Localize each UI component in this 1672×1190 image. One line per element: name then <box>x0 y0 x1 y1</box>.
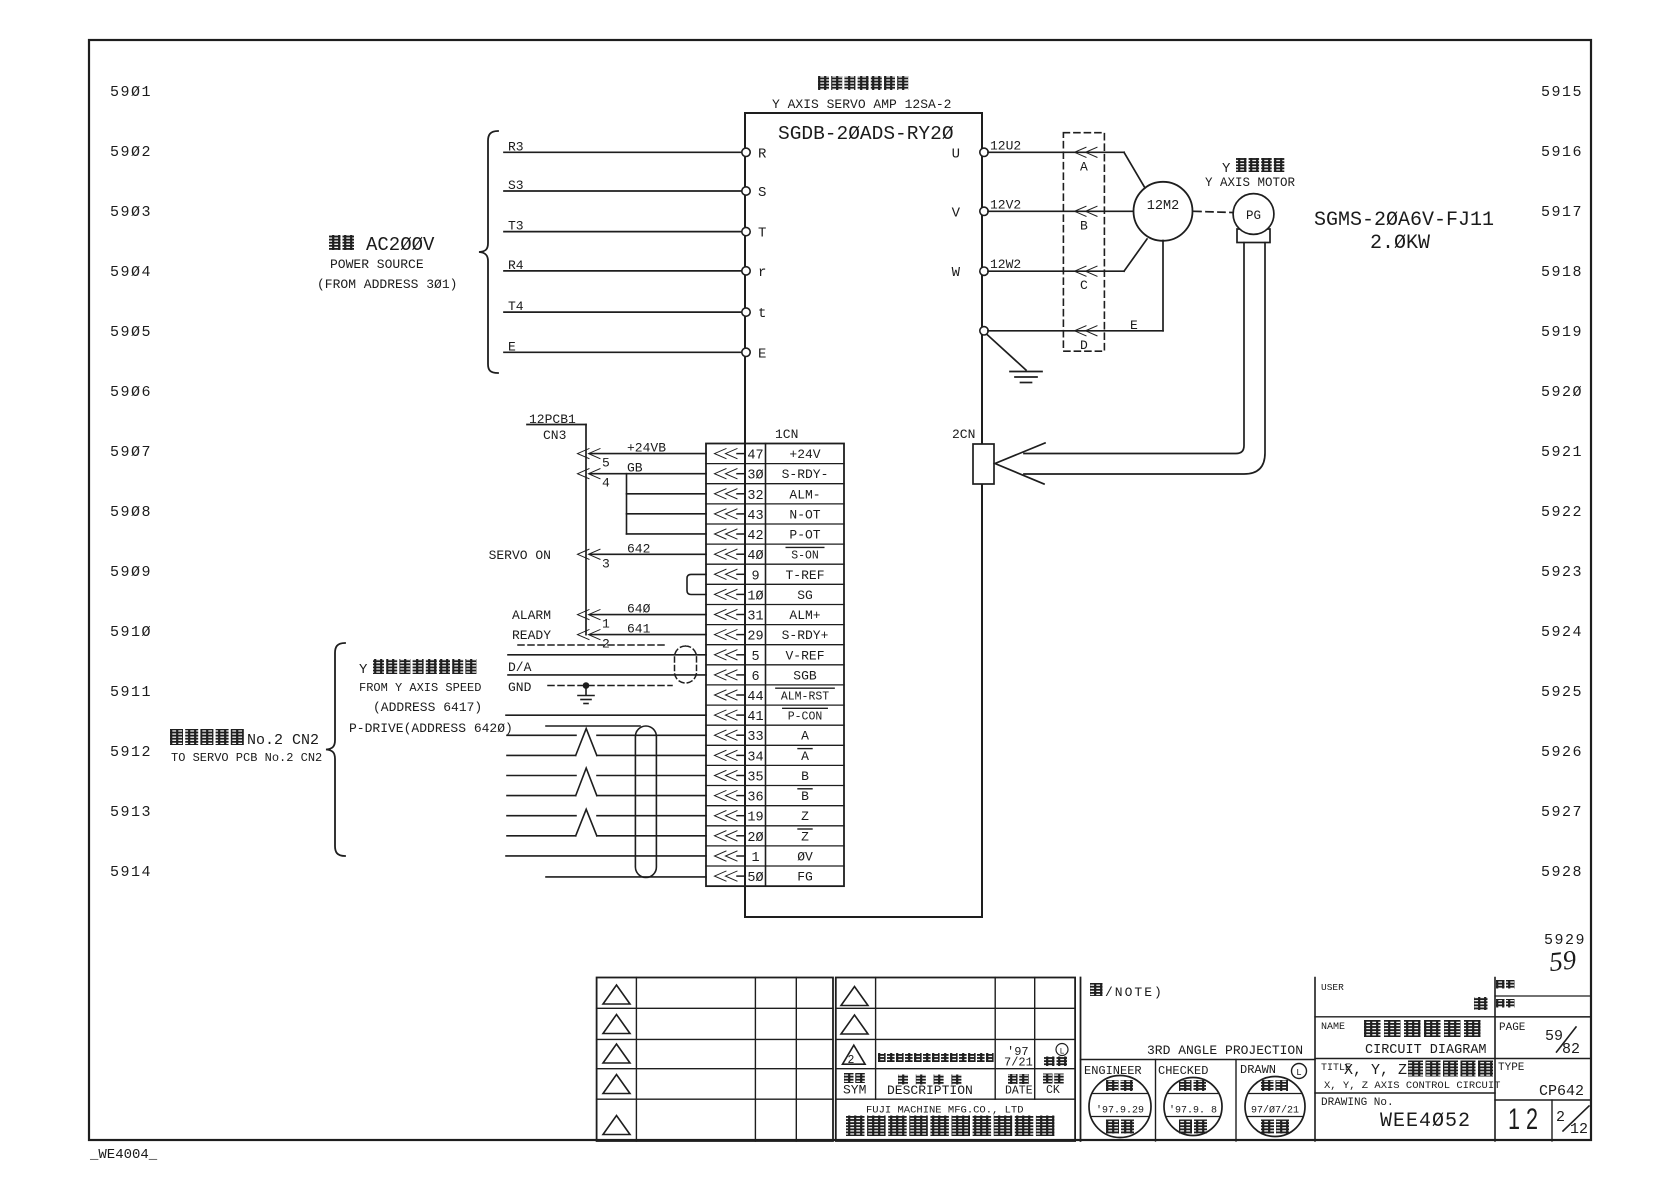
svg-text:Y: Y <box>1222 161 1231 177</box>
approval stamp 97/Ø7/21 <box>1245 1077 1305 1137</box>
svg-text:2Ø: 2Ø <box>747 831 763 846</box>
svg-text:+24V: +24V <box>789 447 820 462</box>
pin 6 SGB <box>715 670 738 680</box>
svg-text:ALARM: ALARM <box>512 608 551 623</box>
pin 29 S-RDY+ <box>715 630 738 640</box>
note box <box>1080 978 1082 1142</box>
svg-text:5912: 5912 <box>110 744 152 761</box>
svg-text:59Ø9: 59Ø9 <box>110 564 152 581</box>
terminal S <box>742 187 750 195</box>
svg-text:642: 642 <box>627 541 650 556</box>
svg-text:64Ø: 64Ø <box>627 602 651 617</box>
wire T4 to terminal t <box>504 311 741 313</box>
svg-text:CK: CK <box>1046 1084 1060 1097</box>
svg-text:44: 44 <box>747 690 763 705</box>
approval stamp '97.9. 8 <box>1164 1078 1222 1136</box>
svg-text:S3: S3 <box>508 178 524 193</box>
svg-text:T: T <box>758 226 766 242</box>
pin 44 ALM-RST <box>715 690 738 700</box>
svg-text:6: 6 <box>751 670 759 685</box>
svg-text:5: 5 <box>751 650 759 665</box>
svg-text:5916: 5916 <box>1541 144 1583 161</box>
svg-text:FUJI MACHINE MFG.CO., LTD: FUJI MACHINE MFG.CO., LTD <box>866 1105 1024 1117</box>
user/name/title column <box>1494 978 1496 1142</box>
pin 9 T-REF <box>715 569 738 579</box>
twisted pair wires at 735.3/755.4 <box>507 734 576 736</box>
svg-text:POWER SOURCE: POWER SOURCE <box>330 257 424 272</box>
terminal T <box>742 227 750 235</box>
svg-text:43: 43 <box>747 509 763 524</box>
svg-text:SGMS-2ØA6V-FJ11: SGMS-2ØA6V-FJ11 <box>1314 209 1494 232</box>
terminal r <box>742 267 750 275</box>
CN3 pin 5 wire +24VB <box>578 449 601 459</box>
brace servo PCB <box>326 643 345 856</box>
svg-text:641: 641 <box>627 622 651 637</box>
svg-text:SG: SG <box>797 588 813 603</box>
svg-text:32: 32 <box>747 489 763 504</box>
pin 34 A <box>715 750 738 760</box>
svg-text:W: W <box>952 265 961 281</box>
svg-text:E: E <box>758 346 766 362</box>
pin 43 N-OT <box>715 509 738 519</box>
svg-text:D: D <box>1080 338 1088 353</box>
svg-text:R: R <box>758 146 767 162</box>
svg-text:7/21: 7/21 <box>1004 1056 1033 1070</box>
svg-text:(FROM ADDRESS 3Ø1): (FROM ADDRESS 3Ø1) <box>317 277 457 292</box>
svg-text:19: 19 <box>747 811 763 826</box>
GB branch to pins 32/43/42 <box>626 474 628 534</box>
svg-text:5917: 5917 <box>1541 204 1583 221</box>
svg-text:5915: 5915 <box>1541 84 1583 101</box>
terminal E <box>742 348 750 356</box>
shield capsule <box>635 726 656 878</box>
svg-text:Y: Y <box>359 662 368 678</box>
revision triangle M1 <box>841 987 868 1006</box>
engineer/checked/drawn row <box>1155 1060 1157 1142</box>
svg-text:CHECKED: CHECKED <box>1158 1064 1208 1078</box>
pin 10 SG <box>715 589 738 599</box>
revision triangle M2 <box>841 1015 868 1034</box>
twisted pair wires at 775.5/795.6 <box>507 775 576 777</box>
svg-text:ØV: ØV <box>797 850 813 865</box>
wire R4 to terminal r <box>504 270 741 272</box>
svg-text:t: t <box>758 306 766 322</box>
revision triangle L5 <box>603 1116 630 1135</box>
svg-text:59Ø3: 59Ø3 <box>110 204 152 221</box>
output terminal D wire <box>980 327 988 335</box>
motor connector dashed box <box>1063 133 1104 352</box>
svg-text:59Ø5: 59Ø5 <box>110 324 152 341</box>
svg-text:34: 34 <box>747 750 763 765</box>
pin 19 Z <box>715 811 738 821</box>
svg-text:2: 2 <box>602 637 610 652</box>
svg-text:READY: READY <box>512 628 551 643</box>
terminal R <box>742 148 750 156</box>
svg-text:AC2ØØV: AC2ØØV <box>366 234 435 256</box>
CN3 pin 1 wire 64Ø <box>578 610 601 620</box>
svg-text:+24VB: +24VB <box>627 441 666 456</box>
svg-text:5914: 5914 <box>110 864 152 881</box>
svg-text:TYPE: TYPE <box>1498 1062 1525 1074</box>
svg-text:B: B <box>801 769 809 784</box>
pin 41 P-CON <box>715 710 738 720</box>
power source brace <box>479 131 498 373</box>
revision table middle <box>836 978 1075 1142</box>
svg-text:59Ø8: 59Ø8 <box>110 504 152 521</box>
svg-text:P-OT: P-OT <box>789 528 820 543</box>
svg-text:NAME: NAME <box>1321 1022 1345 1033</box>
svg-text:FG: FG <box>797 870 813 885</box>
encoder cable <box>1024 243 1244 454</box>
svg-text:SYM: SYM <box>843 1083 866 1098</box>
svg-text:WEE4Ø52: WEE4Ø52 <box>1380 1110 1471 1133</box>
revision triangle L1 <box>603 985 630 1004</box>
svg-text:r: r <box>758 265 766 281</box>
CN3 pin 2 wire 641 <box>578 630 601 640</box>
svg-text:12V2: 12V2 <box>990 197 1021 212</box>
svg-text:5921: 5921 <box>1541 444 1583 461</box>
wire E to terminal E <box>504 351 741 353</box>
svg-text:59Ø1: 59Ø1 <box>110 84 152 101</box>
svg-text:1 2: 1 2 <box>1508 1103 1538 1136</box>
svg-text:R3: R3 <box>508 139 524 154</box>
svg-text:A: A <box>1080 159 1088 174</box>
svg-text:1Ø: 1Ø <box>747 589 763 604</box>
svg-text:5923: 5923 <box>1541 564 1583 581</box>
encoder PG <box>1237 229 1270 243</box>
approval stamp '97.9.29 <box>1089 1076 1151 1138</box>
connector pin A arrow <box>1075 147 1098 157</box>
svg-text:ALM+: ALM+ <box>789 608 820 623</box>
svg-text:12U2: 12U2 <box>990 138 1021 153</box>
pin 30 S-RDY- <box>715 469 738 479</box>
svg-text:N-OT: N-OT <box>789 507 820 522</box>
svg-text:5: 5 <box>602 456 610 471</box>
svg-text:5927: 5927 <box>1541 804 1583 821</box>
wire FG / shield drain <box>546 876 706 878</box>
svg-text:PG: PG <box>1246 209 1261 223</box>
pin 33 A <box>715 730 738 740</box>
svg-text:'97.9.29: '97.9.29 <box>1096 1105 1144 1117</box>
svg-text:59Ø2: 59Ø2 <box>110 144 152 161</box>
pin 42 P-OT <box>715 529 738 539</box>
wire P-CON 41 <box>506 714 706 716</box>
svg-text:9: 9 <box>751 569 759 584</box>
svg-text:D/A: D/A <box>508 660 532 675</box>
svg-text:SGDB-2ØADS-RY2Ø: SGDB-2ØADS-RY2Ø <box>778 123 954 145</box>
svg-text:97/Ø7/21: 97/Ø7/21 <box>1251 1105 1299 1117</box>
svg-text:S-RDY-: S-RDY- <box>782 467 829 482</box>
svg-text:2.ØKW: 2.ØKW <box>1370 232 1430 255</box>
svg-text:3: 3 <box>602 556 610 571</box>
svg-text:V: V <box>952 205 961 221</box>
svg-text:36: 36 <box>747 791 763 806</box>
svg-text:L: L <box>1060 1048 1065 1057</box>
connector pin D arrow <box>1075 326 1098 336</box>
motor wire C diagonal <box>1124 239 1147 271</box>
svg-text:DESCRIPTION: DESCRIPTION <box>887 1083 973 1098</box>
svg-text:DATE: DATE <box>1005 1085 1033 1098</box>
svg-text:USER: USER <box>1321 982 1344 993</box>
page/type column <box>1495 995 1591 997</box>
svg-text:ALM-RST: ALM-RST <box>781 691 829 704</box>
svg-text:5913: 5913 <box>110 804 152 821</box>
svg-text:V-REF: V-REF <box>785 648 824 663</box>
svg-text:'97.9. 8: '97.9. 8 <box>1169 1105 1217 1117</box>
left row numbers 5901-5914 <box>110 84 152 881</box>
svg-text:1CN: 1CN <box>775 427 798 442</box>
svg-text:42: 42 <box>747 529 763 544</box>
terminal t <box>742 308 750 316</box>
svg-text:5922: 5922 <box>1541 504 1583 521</box>
svg-text:Y AXIS MOTOR: Y AXIS MOTOR <box>1205 176 1296 190</box>
svg-text:L: L <box>1296 1068 1301 1078</box>
motor wire A diagonal <box>1124 152 1145 188</box>
svg-text:5928: 5928 <box>1541 864 1583 881</box>
svg-text:DRAWING No.: DRAWING No. <box>1321 1097 1394 1109</box>
wire T3 to terminal T <box>504 231 741 233</box>
svg-text:5911: 5911 <box>110 684 152 701</box>
svg-text:47: 47 <box>747 449 763 464</box>
svg-text:3RD ANGLE PROJECTION: 3RD ANGLE PROJECTION <box>1147 1043 1303 1058</box>
svg-text:_WE4004_: _WE4004_ <box>89 1147 158 1163</box>
svg-text:P-DRIVE(ADDRESS 642Ø): P-DRIVE(ADDRESS 642Ø) <box>349 721 513 736</box>
svg-text:3Ø: 3Ø <box>747 469 763 484</box>
svg-text:/NOTE): /NOTE) <box>1105 985 1164 1000</box>
ground at 4th output terminal <box>987 335 1026 371</box>
svg-text:S-RDY+: S-RDY+ <box>782 628 829 643</box>
label power source AC200V <box>329 235 354 250</box>
svg-text:FROM Y AXIS SPEED: FROM Y AXIS SPEED <box>359 681 481 695</box>
svg-text:TO SERVO PCB No.2 CN2: TO SERVO PCB No.2 CN2 <box>171 751 322 765</box>
svg-text:2: 2 <box>848 1054 855 1067</box>
svg-text:Z: Z <box>801 829 809 844</box>
svg-text:S: S <box>758 185 766 201</box>
svg-text:592Ø: 592Ø <box>1541 384 1583 401</box>
svg-text:2: 2 <box>1556 1109 1565 1126</box>
revision triangle L4 <box>603 1075 630 1094</box>
pin 50 FG <box>715 871 738 881</box>
svg-text:12M2: 12M2 <box>1147 199 1179 214</box>
pin 20 Z <box>715 831 738 841</box>
motor 12M2 <box>1134 182 1193 241</box>
svg-text:S-ON: S-ON <box>791 550 819 563</box>
svg-text:GB: GB <box>627 461 643 476</box>
1CN pin table <box>706 444 844 887</box>
svg-text:U: U <box>952 146 960 162</box>
pin 32 ALM- <box>715 489 738 499</box>
svg-text:T3: T3 <box>508 219 524 234</box>
T-REF/SG link bracket <box>687 574 706 594</box>
svg-text:31: 31 <box>747 610 763 625</box>
svg-text:59Ø4: 59Ø4 <box>110 264 152 281</box>
svg-text:4Ø: 4Ø <box>747 549 763 564</box>
svg-text:E: E <box>508 339 516 354</box>
shield ground junction <box>583 683 589 689</box>
svg-text:59Ø6: 59Ø6 <box>110 384 152 401</box>
shielded pair V-REF/SGB dashed shield <box>518 644 667 646</box>
revision header row <box>844 1073 865 1083</box>
svg-text:41: 41 <box>747 710 763 725</box>
caption servo PCB No.2 CN2 <box>170 729 244 745</box>
svg-text:5926: 5926 <box>1541 744 1583 761</box>
svg-text:5Ø: 5Ø <box>747 871 763 886</box>
svg-text:R4: R4 <box>508 258 524 273</box>
connector pin B arrow <box>1075 206 1098 216</box>
wire S3 to terminal S <box>504 190 741 192</box>
svg-text:CP642: CP642 <box>1539 1083 1584 1100</box>
svg-text:No.2 CN2: No.2 CN2 <box>247 732 319 749</box>
svg-text:P-CON: P-CON <box>788 711 823 724</box>
svg-text:E: E <box>1130 318 1138 333</box>
svg-text:35: 35 <box>747 771 763 786</box>
CN3 bus wire <box>585 425 587 635</box>
caption Y-axis servo amp (kanji) <box>818 76 908 90</box>
revision triangle L3 <box>603 1044 630 1063</box>
wire SGB (D/A) <box>508 674 706 676</box>
revision triangle 2 with note <box>843 1045 866 1064</box>
wire 0V <box>506 855 706 857</box>
CN3 pin 4 wire GB <box>578 469 601 479</box>
dashed link motor to PG <box>1194 211 1232 212</box>
connector pin C arrow <box>1075 266 1098 276</box>
svg-text:(ADDRESS 6417): (ADDRESS 6417) <box>373 700 482 715</box>
svg-text:29: 29 <box>747 630 763 645</box>
svg-text:591Ø: 591Ø <box>110 624 152 641</box>
svg-text:X, Y, Z AXIS CONTROL CIRCUIT: X, Y, Z AXIS CONTROL CIRCUIT <box>1324 1080 1500 1092</box>
svg-text:X, Y, Z: X, Y, Z <box>1344 1062 1407 1079</box>
svg-text:ALM-: ALM- <box>789 487 820 502</box>
svg-text:B: B <box>1080 218 1088 233</box>
svg-text:1: 1 <box>602 617 610 632</box>
svg-text:CN3: CN3 <box>543 428 566 443</box>
pin 47 +24V <box>715 449 738 459</box>
svg-text:A: A <box>801 749 809 764</box>
svg-text:B: B <box>801 789 809 804</box>
svg-text:5919: 5919 <box>1541 324 1583 341</box>
svg-text:59Ø7: 59Ø7 <box>110 444 152 461</box>
2CN cable arrowhead <box>995 443 1045 484</box>
pin 40 S-ON <box>715 549 738 559</box>
pin 31 ALM+ <box>715 610 738 620</box>
svg-text:2CN: 2CN <box>952 427 975 442</box>
pin 35 B <box>715 771 738 781</box>
shield top wire <box>546 725 640 727</box>
svg-text:33: 33 <box>747 730 763 745</box>
pin 1 ØV <box>715 851 738 861</box>
svg-text:12W2: 12W2 <box>990 257 1021 272</box>
servo amplifier box SGDB-20ADS-RY20 <box>745 113 982 917</box>
svg-text:12: 12 <box>1570 1121 1588 1138</box>
motor wire E vertical + label <box>1162 241 1164 331</box>
svg-text:T-REF: T-REF <box>785 568 824 583</box>
wire V-REF <box>508 654 706 656</box>
svg-text:GND: GND <box>508 680 532 695</box>
twisted pair wires at 815.7/835.8 <box>507 815 576 817</box>
svg-text:5925: 5925 <box>1541 684 1583 701</box>
svg-text:59: 59 <box>1545 1028 1563 1045</box>
svg-text:Y AXIS SERVO AMP 12SA-2: Y AXIS SERVO AMP 12SA-2 <box>772 97 951 112</box>
svg-text:Z: Z <box>801 809 809 824</box>
svg-text:5924: 5924 <box>1541 624 1583 641</box>
svg-text:CIRCUIT DIAGRAM: CIRCUIT DIAGRAM <box>1365 1043 1487 1058</box>
svg-text:4: 4 <box>602 476 610 491</box>
revision triangle L2 <box>603 1015 630 1034</box>
title block: revision table left <box>597 978 833 1142</box>
svg-text:A: A <box>801 729 809 744</box>
svg-text:PAGE: PAGE <box>1499 1022 1526 1034</box>
svg-text:82: 82 <box>1562 1041 1580 1058</box>
svg-text:SERVO ON: SERVO ON <box>489 548 551 563</box>
svg-text:59: 59 <box>1548 944 1578 977</box>
wire R3 to terminal R <box>504 151 741 153</box>
CN3 pin 3 wire 642 <box>578 549 601 559</box>
pin 5 V-REF <box>715 650 738 660</box>
svg-text:SGB: SGB <box>793 668 817 683</box>
right row numbers 5915-5929 <box>1541 84 1586 949</box>
svg-text:1: 1 <box>751 851 759 866</box>
svg-text:DRAWN: DRAWN <box>1240 1063 1276 1077</box>
svg-text:T4: T4 <box>508 299 524 314</box>
svg-text:C: C <box>1080 278 1088 293</box>
svg-text:5918: 5918 <box>1541 264 1583 281</box>
pin 36 B <box>715 791 738 801</box>
